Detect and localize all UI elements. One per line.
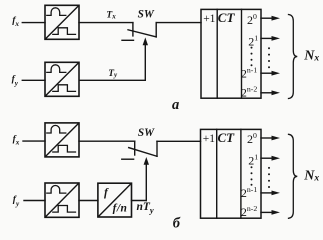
svg-text:CT: CT — [218, 10, 236, 25]
switch SW open-contact dash (bottom) — [122, 158, 134, 160]
control arrow head — [143, 37, 148, 45]
svg-text:fy: fy — [12, 75, 19, 88]
svg-text:+1: +1 — [203, 13, 215, 25]
counter CT1 divider 1 — [216, 9, 218, 98]
output arrow 2^0 (bottom) — [261, 137, 273, 139]
wire nT_y from U5 to control corner — [132, 200, 147, 202]
pulse shaper U2 input waveform (rounded pulse) — [47, 65, 66, 73]
pulse shaper U3 input waveform (rounded pulse) — [47, 125, 66, 133]
switch SW arm (bottom) — [129, 148, 157, 157]
switch SW right post (bottom) — [156, 141, 158, 156]
counter CT2 ellipsis dots (inside) — [251, 166, 253, 186]
svg-text:2n-2: 2n-2 — [241, 204, 257, 219]
counter CT2 box — [201, 129, 262, 218]
switch SW open-contact dash — [122, 39, 134, 41]
pulse shaper U2 output waveform (square pulse) — [53, 85, 76, 92]
counter CT2 divider 1 — [216, 129, 218, 218]
brace for N_x bus (bottom) — [289, 134, 298, 218]
svg-text:SW: SW — [138, 8, 155, 20]
svg-text:2n-1: 2n-1 — [241, 65, 257, 80]
svg-text:Ty: Ty — [108, 69, 118, 79]
counter CT1 divider 2 — [241, 9, 243, 98]
svg-text:2n-2: 2n-2 — [241, 85, 257, 100]
control arrow head (bottom) — [144, 157, 149, 165]
svg-text:21: 21 — [248, 152, 258, 167]
svg-text:20: 20 — [247, 131, 257, 146]
svg-text:20: 20 — [247, 12, 257, 27]
svg-text:SW: SW — [138, 127, 155, 139]
switch SW left post (bottom) — [134, 141, 136, 155]
wire from f_x to shaper U1 — [22, 22, 45, 24]
output arrow 2^n-2 (bottom) — [261, 211, 273, 213]
wire from f_y to shaper U2 — [22, 79, 45, 81]
svg-text:а: а — [172, 97, 179, 113]
switch SW left post — [132, 23, 134, 36]
svg-text:+1: +1 — [203, 133, 215, 145]
svg-text:б: б — [173, 216, 181, 230]
ellipsis dots (between arrows, bottom) — [268, 167, 270, 188]
pulse shaper U1 box — [45, 5, 79, 39]
wire from U4 to divider U5 — [79, 200, 98, 202]
frequency divider U5 diagonal — [99, 184, 131, 216]
output arrow 2^1 — [261, 37, 273, 39]
pulse shaper U1 diagonal — [46, 6, 78, 38]
wire from SW to counter CT2 +1 input — [157, 140, 201, 142]
wire T_y from U2 to control arrow corner — [79, 79, 145, 81]
wire T_x from U1 to switch SW — [79, 22, 133, 24]
pulse shaper U4 diagonal — [46, 184, 78, 217]
output arrow 2^n-1 (bottom) — [261, 192, 273, 194]
counter CT1 box — [201, 9, 261, 98]
svg-text:CT: CT — [218, 130, 236, 145]
output arrow 2^0 — [261, 17, 273, 19]
pulse shaper U4 output waveform (square pulse) — [53, 206, 76, 213]
svg-text:2n-1: 2n-1 — [241, 185, 257, 200]
output arrow 2^n-2 — [261, 92, 273, 94]
svg-text:fx: fx — [13, 134, 20, 146]
pulse shaper U2 box — [45, 62, 79, 96]
ellipsis dots (between arrows) — [268, 47, 270, 68]
output arrow 2^n-1 — [261, 72, 273, 74]
svg-text:fy: fy — [13, 195, 20, 208]
pulse shaper U2 diagonal — [46, 63, 78, 95]
pulse shaper U4 box — [45, 183, 79, 217]
svg-text:Nx: Nx — [303, 49, 319, 64]
svg-text:21: 21 — [248, 34, 258, 49]
control arrow shaft into SW (bottom) — [145, 165, 147, 201]
pulse shaper U3 output waveform (square pulse) — [53, 145, 76, 152]
wire from SW to counter CT1 +1 input — [156, 22, 201, 24]
wire from f_x to shaper U3 — [23, 140, 45, 142]
svg-text:f: f — [104, 187, 109, 199]
switch SW arm — [128, 30, 156, 37]
svg-text:fx: fx — [12, 16, 19, 28]
output arrow 2^1 (bottom) — [261, 157, 273, 159]
counter CT1 ellipsis dots (inside) — [251, 47, 253, 67]
wire from U3 to switch SW (bottom) — [79, 140, 135, 142]
svg-text:Nx: Nx — [303, 168, 319, 183]
pulse shaper U3 diagonal — [46, 124, 78, 156]
frequency divider U5 box — [98, 183, 132, 217]
svg-text:Tx: Tx — [106, 10, 116, 20]
switch SW right post — [155, 23, 157, 37]
pulse shaper U1 output waveform (square pulse) — [53, 28, 76, 35]
svg-text:f/n: f/n — [113, 203, 127, 215]
pulse shaper U4 input waveform (rounded pulse) — [47, 186, 66, 194]
brace for N_x bus (top) — [289, 15, 298, 99]
control arrow shaft into SW — [144, 45, 146, 80]
counter CT2 divider 2 — [240, 129, 242, 218]
wire from f_y to shaper U4 — [24, 200, 45, 202]
svg-text:nTy: nTy — [137, 201, 154, 215]
pulse shaper U1 input waveform (rounded pulse) — [47, 8, 66, 16]
pulse shaper U3 box — [45, 123, 79, 157]
